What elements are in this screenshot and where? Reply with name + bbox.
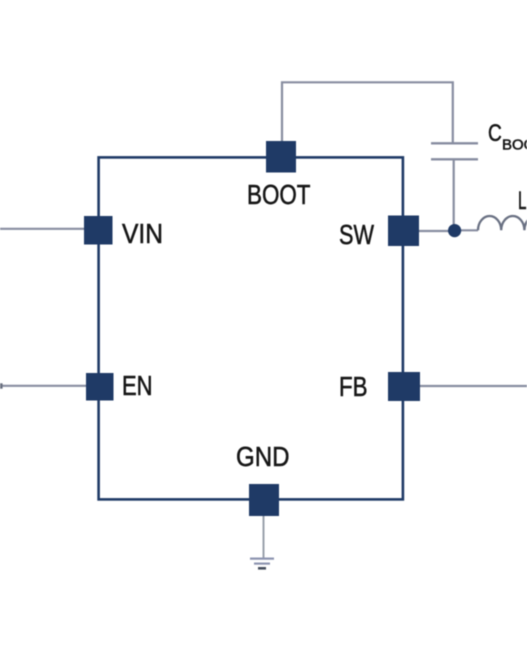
wire GND to ground [263,516,265,558]
wire EN input end stub [0,383,3,388]
wire SW pin to node [419,230,450,232]
svg-text:L: L [518,187,527,215]
capacitor C_BOOT [431,143,478,159]
wire C_BOOT to SW node [453,160,455,228]
pin BOOT pad [266,141,296,173]
pin VIN pad [84,216,113,245]
inductor L1 [478,216,527,230]
wire FB output [420,385,527,387]
pin FB pad [388,372,420,401]
svg-text:BOOT: BOOT [502,137,527,154]
svg-text:GND: GND [236,441,290,472]
wire node to inductor [460,229,478,231]
wire VIN input [0,228,85,230]
wire BOOT to C_BOOT [282,82,453,143]
wire EN input [0,385,87,387]
ground [250,559,274,569]
pin SW pad [388,216,419,247]
svg-text:FB: FB [339,371,368,402]
svg-text:EN: EN [122,370,153,401]
svg-text:C: C [488,120,502,147]
svg-text:VIN: VIN [122,218,163,249]
IC U1 body (regulator outline) [99,157,403,499]
svg-text:SW: SW [339,219,374,250]
pin EN pad [86,373,114,401]
node SW junction [448,224,461,237]
pin GND pad [249,484,279,516]
label C_BOOT [488,120,527,154]
svg-text:BOOT: BOOT [247,179,311,210]
